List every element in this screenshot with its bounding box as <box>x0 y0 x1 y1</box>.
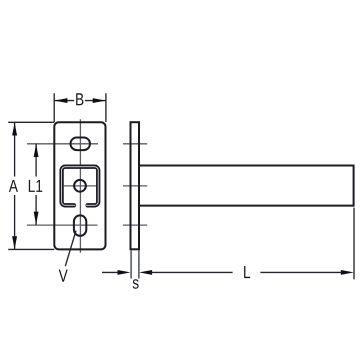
A dimension line <box>14 122 16 176</box>
V leader line <box>65 231 76 267</box>
s arrow pointing right <box>118 270 131 275</box>
B extension line left <box>53 93 55 122</box>
L1 arrow down <box>34 212 39 225</box>
side view arm right end <box>353 165 355 207</box>
label L <box>244 266 250 278</box>
side view arm bottom edge <box>139 205 354 207</box>
label A <box>9 180 18 192</box>
A extension line bottom <box>8 248 54 250</box>
L1 arrow up <box>34 144 39 157</box>
channel profile (open square, walls drawn as double line) <box>62 167 99 206</box>
L dimension line <box>151 271 233 273</box>
centerline tick: side view bottom slot level <box>123 224 147 226</box>
label V <box>59 270 68 282</box>
centerline tick: side view top slot level <box>123 143 147 145</box>
s extension line right (below flange) <box>138 250 140 278</box>
front plate outline <box>54 122 105 249</box>
s arrow / L left arrow pointing left <box>139 270 152 275</box>
L extension line right (below arm end) <box>353 208 355 280</box>
label B <box>76 93 83 105</box>
channel center hole circle <box>74 180 86 192</box>
B arrow left <box>54 98 67 103</box>
A extension line top <box>8 121 54 123</box>
A arrow down <box>12 236 17 249</box>
bottom slot (vertical obround) <box>74 215 86 235</box>
centerline: bottom slot horizontal (also L1 bottom extension) <box>27 224 98 226</box>
s dimension left tail <box>102 271 119 273</box>
top slot (horizontal obround) <box>71 138 91 151</box>
s extension line left (below flange) <box>130 250 132 278</box>
B arrow right <box>93 98 106 103</box>
centerline: top slot horizontal (also L1 top extension) <box>27 143 98 145</box>
channel wall white split <box>62 167 99 206</box>
centerline: middle circle horizontal <box>64 185 97 187</box>
centerline: vertical axis of front view <box>79 119 81 252</box>
side view flange <box>131 122 140 249</box>
label s <box>133 279 139 289</box>
label L1 <box>29 180 35 192</box>
side view arm top edge <box>139 165 354 167</box>
A arrow up <box>12 123 17 136</box>
L arrow right <box>341 270 354 275</box>
L1 dimension line <box>35 144 37 177</box>
B extension line right <box>105 93 107 122</box>
centerline tick: side view middle level <box>123 185 147 187</box>
B dimension line <box>54 100 74 102</box>
